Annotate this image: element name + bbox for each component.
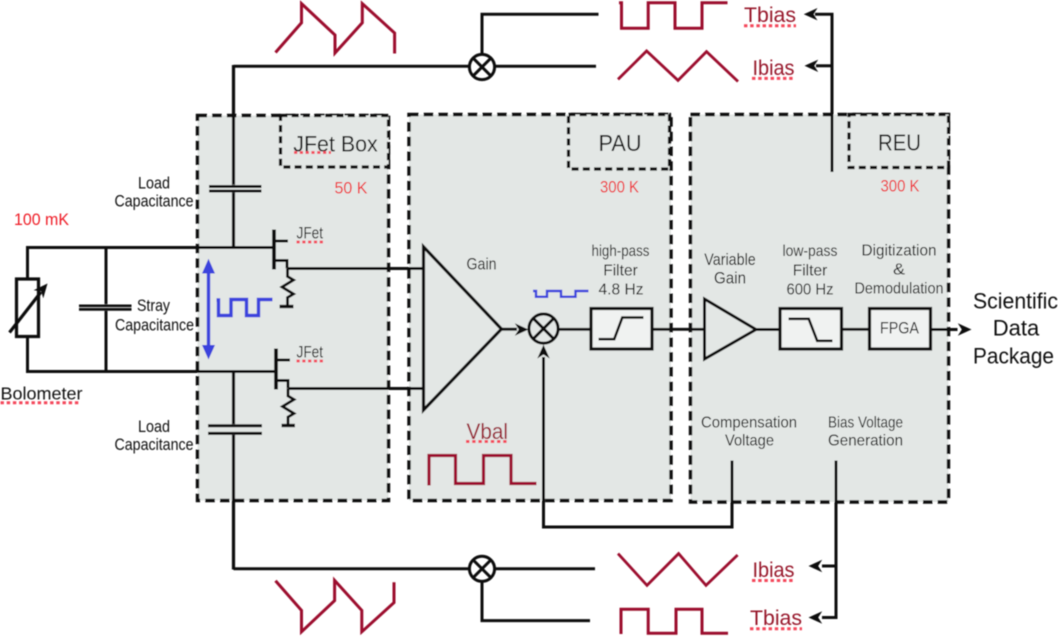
wire bottom mixer drop to Tbias wave (482, 581, 590, 620)
label Load Capacitance (bottom) (115, 417, 194, 454)
FPGA block (870, 309, 931, 350)
svg-text:Bolometer: Bolometer (1, 384, 83, 404)
op-amp Gain (424, 247, 502, 410)
wire top rail (bolometer to JFet gate) (26, 246, 274, 249)
wire bottom feedback rail (234, 567, 470, 570)
wire bias generation to bottom arrows (809, 461, 837, 624)
resistor (bottom JFet load) (282, 389, 296, 426)
JFet Box enclosure (198, 116, 389, 501)
svg-text:Scientific: Scientific (973, 289, 1058, 314)
svg-text:Tbias: Tbias (750, 607, 802, 630)
sawtooth waveform (top) (276, 4, 395, 54)
high-pass filter block (591, 309, 652, 350)
label Bias Voltage Generation (828, 415, 903, 450)
svg-text:Ibias: Ibias (753, 57, 795, 80)
wire variable gain to low-pass (756, 328, 781, 331)
svg-text:Data: Data (993, 316, 1040, 341)
svg-text:JFet: JFet (297, 343, 324, 362)
svg-text:Compensation: Compensation (701, 415, 797, 432)
transistor Q2 JFET (bottom) (276, 349, 290, 390)
wire bolometer bottom lead (26, 335, 29, 373)
bolometer R (variable thermistor) (10, 279, 48, 337)
svg-text:Filter: Filter (603, 263, 638, 280)
svg-text:Tbias: Tbias (744, 4, 796, 27)
svg-text:Generation: Generation (828, 433, 903, 450)
wire top feedback rail (234, 65, 470, 68)
label Stray Capacitance (115, 296, 194, 335)
svg-text:Gain: Gain (467, 256, 497, 274)
label Compensation Voltage (701, 415, 797, 450)
blue square wave (modulated input) (217, 300, 273, 316)
square wave Tbias (top) (619, 3, 728, 28)
capacitor load bottom (208, 372, 262, 570)
triangle wave Ibias (bottom) (618, 554, 738, 586)
wire compensation feedback (544, 357, 733, 527)
PAU enclosure (409, 115, 671, 501)
svg-text:Load: Load (138, 417, 170, 436)
square wave Vbal (429, 456, 537, 486)
svg-text:50 K: 50 K (335, 179, 369, 198)
wire Q1 output to Gain (287, 267, 425, 270)
svg-text:Variable: Variable (704, 251, 756, 269)
capacitor stray (79, 248, 132, 372)
wire low-pass to FPGA (842, 328, 871, 331)
low-pass filter block (780, 309, 842, 350)
label JFet (bottom) (297, 343, 324, 362)
svg-text:PAU: PAU (599, 130, 642, 156)
op-amp Variable Gain (705, 299, 757, 359)
blue modulation double arrow (202, 259, 215, 360)
label Digitization & Demodulation (855, 243, 944, 298)
arrow FPGA output (931, 323, 972, 335)
PAU title box (569, 115, 670, 170)
triangle wave Ibias (top) (618, 51, 738, 82)
svg-text:Voltage: Voltage (725, 433, 774, 450)
svg-text:JFet: JFet (297, 224, 324, 243)
svg-text:600 Hz: 600 Hz (787, 282, 834, 299)
svg-text:Capacitance: Capacitance (115, 435, 194, 454)
label Tbias (bottom) (750, 607, 802, 630)
svg-text:REU: REU (878, 130, 921, 156)
svg-text:100 mK: 100 mK (14, 211, 69, 229)
svg-text:300 K: 300 K (600, 178, 640, 197)
capacitor load top (209, 65, 262, 248)
JFet Box title box (281, 116, 389, 168)
label high-pass Filter 4.8 Hz (592, 243, 650, 299)
svg-text:Digitization: Digitization (862, 243, 937, 260)
svg-text:Capacitance: Capacitance (115, 316, 194, 335)
transistor Q1 JFET (top) (274, 230, 288, 270)
label Ibias (top) (752, 57, 795, 80)
svg-text:Load: Load (138, 174, 170, 193)
svg-text:high-pass: high-pass (592, 243, 650, 260)
wire high-pass to variable gain (652, 328, 705, 331)
svg-text:Filter: Filter (793, 263, 828, 280)
multiplier top bias mixer (469, 54, 494, 79)
wire bolometer top lead (26, 246, 29, 280)
svg-text:&: & (893, 262, 905, 279)
sawtooth waveform (bottom) (276, 580, 395, 631)
svg-text:Gain: Gain (714, 270, 746, 288)
label Scientific Data Package (973, 289, 1058, 369)
svg-text:300 K: 300 K (881, 177, 921, 196)
svg-text:4.8 Hz: 4.8 Hz (599, 282, 644, 299)
label Ibias (bottom) (752, 559, 795, 582)
label Bolometer (1, 384, 83, 404)
label low-pass Filter 600 Hz (783, 243, 838, 299)
svg-text:Capacitance: Capacitance (115, 192, 194, 211)
wire mixer to high-pass filter (558, 328, 591, 331)
square wave Tbias (bottom) (621, 609, 728, 634)
resistor (top JFet load) (280, 269, 294, 307)
svg-text:Demodulation: Demodulation (855, 281, 944, 298)
wire Q2 output to Gain (288, 387, 425, 390)
svg-text:Stray: Stray (137, 296, 170, 315)
svg-text:Ibias: Ibias (753, 559, 795, 582)
svg-text:FPGA: FPGA (880, 320, 919, 338)
arrow Gain output (502, 323, 529, 335)
svg-text:Package: Package (973, 344, 1054, 369)
svg-text:low-pass: low-pass (783, 243, 838, 260)
multiplier balance mixer (529, 314, 558, 343)
label Tbias (top) (744, 4, 796, 27)
multiplier bottom bias mixer (469, 556, 494, 581)
label Vbal (466, 419, 509, 444)
REU title box (849, 115, 949, 168)
REU enclosure (691, 115, 949, 503)
wire top mixer to Ibias wave (494, 65, 596, 68)
label JFet (top) (297, 224, 324, 243)
wire bias line top (804, 8, 832, 172)
blue square wave (balanced signal) (533, 291, 589, 297)
svg-text:Bias Voltage: Bias Voltage (828, 415, 903, 432)
label Load Capacitance (top) (115, 174, 194, 211)
wire bottom rail (bolometer to JFet gate) (26, 370, 276, 373)
wire top mixer riser to Tbias wave (482, 14, 599, 54)
arrow into balance mixer (537, 345, 549, 359)
label Variable Gain (704, 251, 756, 288)
wire bottom mixer to Ibias wave (494, 567, 595, 570)
